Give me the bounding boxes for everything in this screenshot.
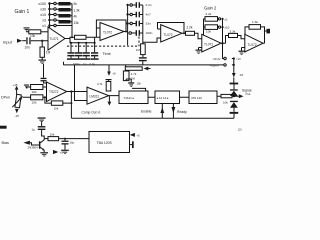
svg-text:+5: +5	[137, 133, 141, 137]
svg-text:10k: 10k	[206, 30, 211, 34]
svg-text:MS 140: MS 140	[192, 96, 203, 100]
svg-text:10k: 10k	[50, 133, 55, 137]
svg-text:-15: -15	[15, 114, 20, 118]
svg-text:2N3904: 2N3904	[28, 146, 39, 150]
svg-text:(2): (2)	[238, 128, 242, 132]
svg-text:x30: x30	[40, 8, 46, 12]
svg-text:≈1V: ≈1V	[236, 57, 241, 61]
svg-text:10n: 10n	[25, 45, 31, 49]
svg-text:x1: x1	[42, 24, 46, 28]
svg-text:13k: 13k	[74, 21, 80, 25]
svg-text:Input: Input	[3, 40, 13, 45]
svg-text:+5: +5	[60, 151, 64, 155]
svg-text:TL071: TL071	[50, 37, 59, 41]
svg-text:1n: 1n	[83, 62, 87, 66]
svg-text:Time: Time	[103, 52, 111, 56]
svg-text:100p: 100p	[73, 62, 80, 66]
svg-text:9k: 9k	[74, 2, 78, 6]
svg-text:4.7k: 4.7k	[97, 82, 103, 86]
svg-text:x1: x1	[225, 17, 229, 21]
svg-text:+15: +15	[13, 83, 18, 87]
svg-text:LM311: LM311	[90, 95, 100, 99]
svg-text:x3: x3	[42, 19, 46, 23]
svg-text:Enable: Enable	[141, 110, 152, 114]
svg-text:Gain 1: Gain 1	[15, 9, 30, 15]
svg-text:10k: 10k	[54, 107, 59, 111]
svg-text:100n: 100n	[146, 31, 153, 35]
svg-text:10μ: 10μ	[70, 141, 75, 145]
svg-text:2.2n: 2.2n	[89, 62, 95, 66]
svg-text:3.3k: 3.3k	[230, 30, 236, 34]
svg-text:TS272: TS272	[49, 90, 59, 94]
svg-text:1M: 1M	[136, 48, 141, 52]
svg-text:10k: 10k	[137, 82, 142, 86]
svg-text:33n: 33n	[146, 22, 151, 26]
svg-text:+5: +5	[112, 71, 116, 75]
svg-text:TBA 120S: TBA 120S	[97, 141, 113, 145]
svg-text:Gain 2: Gain 2	[204, 6, 217, 11]
svg-text:10k: 10k	[30, 34, 36, 38]
svg-text:2.2n: 2.2n	[146, 3, 152, 7]
svg-text:Ready: Ready	[177, 110, 187, 114]
svg-text:TL072: TL072	[248, 43, 257, 47]
svg-text:-15: -15	[239, 73, 244, 77]
svg-text:2.2k: 2.2k	[206, 12, 212, 16]
svg-text:10k: 10k	[223, 101, 228, 105]
svg-text:10k: 10k	[32, 100, 37, 104]
svg-text:4k: 4k	[74, 15, 78, 19]
svg-text:74121 ▸: 74121 ▸	[124, 96, 135, 100]
svg-text:1M: 1M	[46, 51, 51, 55]
svg-text:DPen: DPen	[1, 96, 10, 100]
svg-text:x100: x100	[38, 2, 46, 6]
svg-text:TL072: TL072	[164, 33, 173, 37]
svg-text:10k: 10k	[32, 90, 37, 94]
svg-text:4n7: 4n7	[146, 13, 151, 17]
svg-text:1.3k: 1.3k	[74, 9, 80, 13]
svg-text:TL072: TL072	[103, 31, 112, 35]
svg-text:Bias: Bias	[2, 141, 9, 145]
svg-text:Out: Out	[246, 92, 251, 96]
svg-text:x10: x10	[40, 13, 46, 17]
svg-text:2.2k: 2.2k	[187, 26, 193, 30]
svg-text:◂ 12 14 ▸: ◂ 12 14 ▸	[157, 96, 170, 100]
svg-text:1.3k: 1.3k	[252, 20, 258, 24]
svg-text:≈6mV: ≈6mV	[213, 57, 221, 61]
svg-text:Comp Out ½: Comp Out ½	[82, 111, 101, 115]
svg-text:1μ: 1μ	[32, 128, 36, 132]
svg-text:TL071: TL071	[204, 43, 213, 47]
